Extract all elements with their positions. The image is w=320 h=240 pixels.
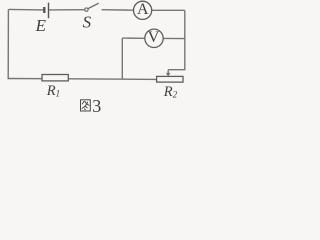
svg-text:3: 3	[92, 96, 101, 116]
svg-text:E: E	[35, 16, 47, 35]
svg-text:S: S	[83, 12, 92, 31]
svg-text:A: A	[137, 1, 149, 18]
svg-text:V: V	[148, 29, 160, 46]
